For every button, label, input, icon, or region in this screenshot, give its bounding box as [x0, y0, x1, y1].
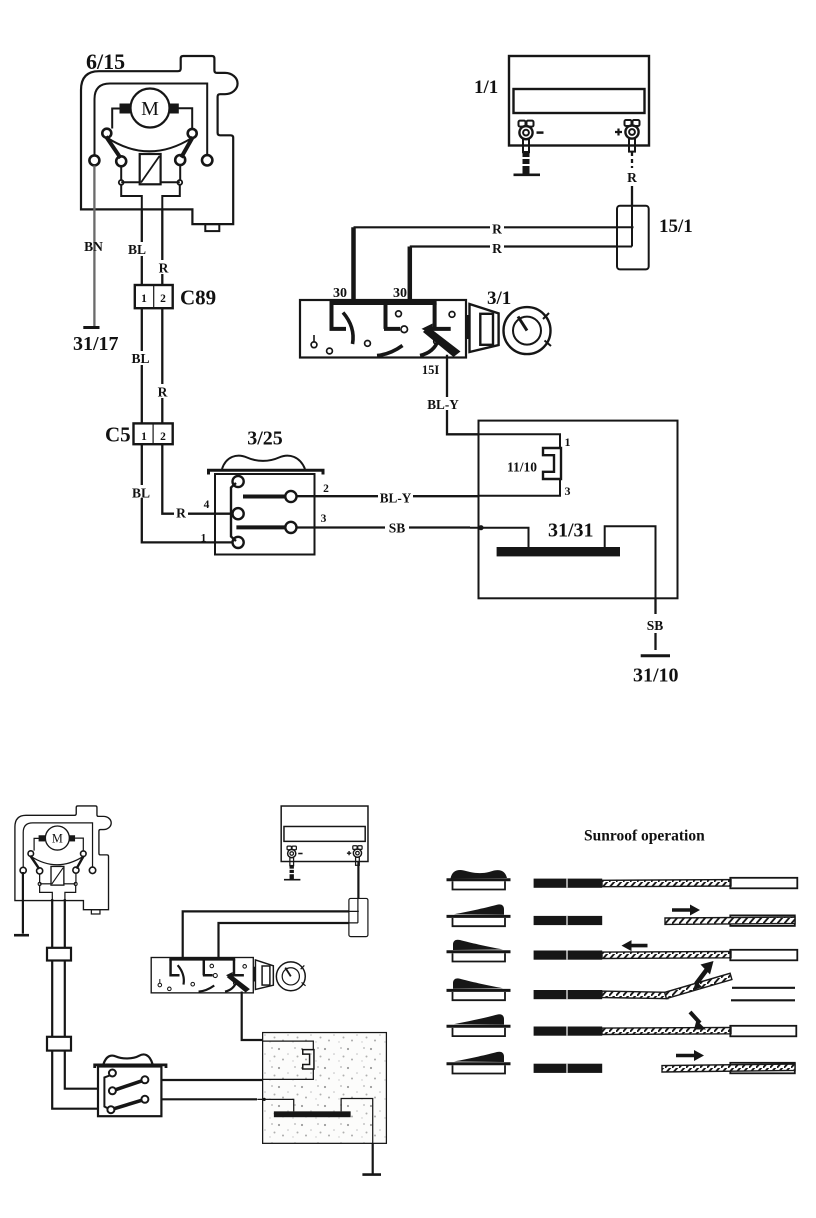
- svg-text:R: R: [159, 261, 169, 276]
- svg-text:BL: BL: [132, 486, 150, 501]
- svg-text:6/15: 6/15: [86, 49, 125, 74]
- svg-text:1/1: 1/1: [474, 77, 498, 98]
- svg-text:3/25: 3/25: [247, 428, 283, 450]
- svg-text:2: 2: [323, 483, 329, 495]
- svg-text:C89: C89: [180, 286, 216, 310]
- svg-text:BN: BN: [84, 239, 103, 254]
- svg-text:3: 3: [565, 484, 571, 498]
- svg-text:BL-Y: BL-Y: [380, 491, 412, 506]
- svg-text:4: 4: [204, 499, 210, 511]
- svg-text:SB: SB: [647, 618, 664, 633]
- svg-text:15/1: 15/1: [659, 216, 693, 237]
- svg-text:BL: BL: [131, 351, 149, 366]
- svg-text:31/10: 31/10: [633, 665, 679, 687]
- svg-text:Sunroof operation: Sunroof operation: [584, 828, 705, 845]
- svg-text:3/1: 3/1: [487, 288, 511, 309]
- svg-text:2: 2: [160, 431, 166, 443]
- svg-text:15I: 15I: [422, 363, 440, 377]
- svg-text:3: 3: [321, 513, 327, 525]
- svg-text:31/31: 31/31: [548, 520, 594, 542]
- svg-text:SB: SB: [389, 521, 406, 536]
- svg-text:1: 1: [141, 293, 147, 305]
- svg-text:C5: C5: [105, 423, 131, 447]
- svg-text:1: 1: [201, 533, 207, 545]
- svg-text:30: 30: [393, 286, 407, 301]
- svg-text:1: 1: [565, 435, 571, 449]
- svg-text:2: 2: [160, 293, 166, 305]
- svg-text:R: R: [176, 506, 186, 521]
- svg-text:R: R: [158, 385, 168, 400]
- svg-text:BL-Y: BL-Y: [427, 397, 459, 412]
- svg-text:30: 30: [333, 286, 347, 301]
- svg-text:BL: BL: [128, 242, 146, 257]
- svg-text:R: R: [492, 241, 502, 256]
- svg-text:1: 1: [141, 431, 147, 443]
- svg-text:R: R: [627, 170, 637, 185]
- svg-text:31/17: 31/17: [73, 333, 119, 355]
- svg-text:R: R: [492, 222, 502, 237]
- svg-text:11/10: 11/10: [507, 460, 537, 475]
